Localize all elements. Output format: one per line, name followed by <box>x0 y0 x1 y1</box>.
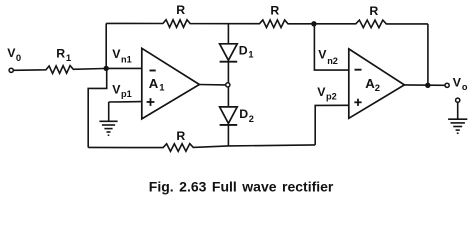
op-amp A1 non-inverting input marker (plus) <box>147 101 155 103</box>
svg-text:0: 0 <box>16 53 21 64</box>
svg-text:R: R <box>176 129 185 143</box>
svg-text:1: 1 <box>66 53 72 64</box>
node top-rail junction feeding Vn2 (dot) <box>311 21 316 26</box>
ground reference terminal below Vo <box>456 98 460 102</box>
wire A2 output to Vo terminal <box>404 84 445 86</box>
svg-text:V: V <box>112 83 121 97</box>
svg-text:D: D <box>239 107 248 121</box>
wire Vn1 node step down to bottom feedback rail <box>88 68 107 147</box>
wire Vn1 node to A1 inverting input <box>106 67 142 69</box>
ground at A1 non-inverting input <box>108 102 110 121</box>
op-amp A2 inverting input marker (minus) <box>355 69 362 71</box>
svg-text:A: A <box>149 76 159 91</box>
svg-text:p1: p1 <box>121 89 132 99</box>
op-amp A1 (triangle) <box>142 48 200 119</box>
wire Vn1 node up to top feedback rail <box>105 23 107 68</box>
node V0 input terminal <box>9 68 13 72</box>
svg-text:D: D <box>239 44 248 58</box>
node Vo output terminal <box>445 83 449 87</box>
node A1 output (open circle between D1 and D2) <box>226 83 230 87</box>
svg-text:2: 2 <box>375 83 380 94</box>
wire bottom feedback rail with resistor R (bottom) <box>88 144 315 152</box>
wire feedback from top rail down to A2 output node <box>427 24 429 85</box>
svg-text:Fig. 2.63 Full wave rectifier: Fig. 2.63 Full wave rectifier <box>149 178 334 194</box>
svg-text:V: V <box>317 85 326 99</box>
svg-text:o: o <box>462 82 468 92</box>
svg-text:V: V <box>453 76 462 90</box>
diode D2 (anode at A1 output node, cathode at bottom rail) <box>227 87 229 107</box>
node A2 output junction (dot) <box>425 83 430 88</box>
op-amp A2 non-inverting input marker (plus) <box>354 101 361 103</box>
wire Vp1: A1 non-inverting input to ground stub <box>109 101 142 103</box>
svg-text:R: R <box>270 4 279 18</box>
svg-text:1: 1 <box>159 82 165 93</box>
op-amp A2 (triangle) <box>349 49 405 118</box>
resistor R1 (input, wire from V0 terminal to node Vn1) <box>14 66 105 74</box>
svg-text:R: R <box>176 3 185 17</box>
op-amp A1 inverting input marker (minus) <box>150 70 156 72</box>
node Vn1 (junction dot) <box>104 66 109 71</box>
svg-text:n2: n2 <box>327 56 338 66</box>
svg-text:n1: n1 <box>121 55 132 65</box>
svg-text:R: R <box>369 4 378 18</box>
svg-text:p2: p2 <box>326 91 337 101</box>
svg-text:R: R <box>56 47 65 61</box>
wire Vn2 step from top-rail node down to A2 inverting input <box>314 24 348 70</box>
svg-text:V: V <box>112 47 121 61</box>
wire Vp2 step from bottom rail up to A2 non-inverting input <box>315 105 349 145</box>
svg-text:1: 1 <box>248 50 253 60</box>
wire A1 output to diode junction <box>199 84 226 86</box>
svg-text:2: 2 <box>249 114 254 124</box>
svg-text:A: A <box>365 76 375 91</box>
svg-text:V: V <box>318 48 327 62</box>
diode D1 (anode at top rail, cathode at A1 output node) <box>227 24 229 44</box>
wire top feedback rail carrying three resistors R <box>106 20 428 28</box>
